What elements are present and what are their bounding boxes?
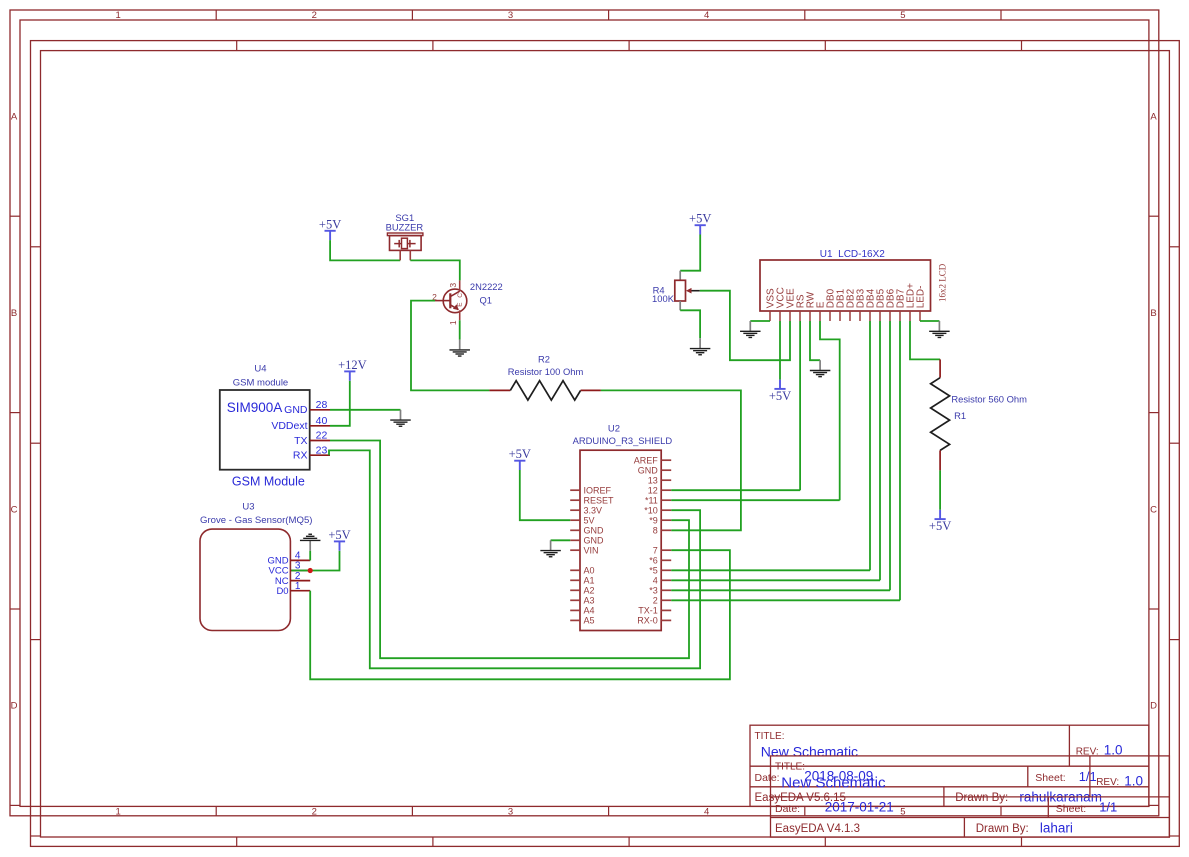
svg-text:1: 1: [115, 806, 120, 817]
wire U2 pin *11 to LCD E: [671, 499, 840, 501]
svg-text:*10: *10: [644, 506, 658, 516]
svg-text:GSM Module: GSM Module: [232, 474, 305, 488]
svg-text:GND: GND: [584, 526, 605, 536]
svg-text:ARDUINO_R3_SHIELD: ARDUINO_R3_SHIELD: [573, 435, 673, 446]
svg-text:2: 2: [312, 806, 317, 817]
wire U2 pin 12 to LCD RS: [671, 489, 800, 491]
svg-text:AREF: AREF: [634, 456, 659, 466]
svg-text:A: A: [1150, 112, 1157, 123]
svg-text:5V: 5V: [584, 516, 595, 526]
power flag +5V (R4 top): [689, 212, 711, 235]
ground (U2 GND): [540, 540, 561, 556]
svg-text:IOREF: IOREF: [584, 486, 612, 496]
label SG1 BUZZER: [386, 212, 424, 232]
svg-text:D: D: [1150, 701, 1157, 712]
svg-text:D: D: [11, 701, 18, 712]
U4 pin 40 VDDext: [271, 415, 330, 432]
wire +5V to U2 5V pin: [520, 470, 570, 520]
wire LCD DB7 vertical: [899, 321, 901, 600]
svg-text:A0: A0: [584, 566, 595, 576]
svg-text:5: 5: [900, 10, 905, 21]
svg-text:*3: *3: [649, 586, 658, 596]
svg-text:TX-1: TX-1: [638, 606, 658, 616]
svg-text:TITLE:: TITLE:: [755, 731, 785, 742]
wire LCD VCC to +5V: [779, 321, 781, 380]
U2 right pin RX-0: [637, 616, 671, 626]
ground (U3 GND, inverted): [300, 534, 321, 550]
wire LCD DB6 vertical: [889, 321, 891, 590]
resistor R2 100 Ohm: [489, 381, 601, 400]
svg-text:A1: A1: [584, 576, 595, 586]
svg-text:8: 8: [653, 526, 658, 536]
power flag +12V: [338, 358, 367, 381]
wire U2 pin 4 to LCD DB5: [671, 579, 880, 581]
svg-text:+5V: +5V: [319, 217, 341, 231]
svg-text:1/1: 1/1: [1079, 769, 1097, 784]
U2 left pin IOREF: [570, 486, 611, 496]
svg-text:GND: GND: [638, 466, 659, 476]
wire U3 D0 to U2 pin 7: [310, 550, 730, 679]
U1 pin RW: [805, 291, 816, 321]
label R4 100K: [652, 285, 675, 305]
wire LCD LED- to ground: [920, 320, 939, 322]
svg-text:R1: R1: [954, 410, 966, 421]
svg-text:+12V: +12V: [338, 358, 367, 372]
svg-text:Sheet:: Sheet:: [1056, 803, 1086, 815]
U2 left pin RESET: [570, 496, 614, 506]
svg-text:U1 LCD-16X2: U1 LCD-16X2: [820, 249, 885, 260]
svg-text:VIN: VIN: [584, 546, 599, 556]
wire Q1 base to R2: [411, 301, 489, 391]
svg-text:Resistor 560 Ohm: Resistor 560 Ohm: [951, 393, 1027, 404]
svg-text:40: 40: [316, 415, 328, 427]
U2 right pin AREF: [634, 456, 671, 466]
wire buzzer pin 2 to Q1 collector: [410, 260, 460, 280]
power flag +5V (R1 bottom): [929, 510, 951, 533]
svg-text:TX: TX: [294, 435, 307, 447]
wire LCD DB5 vertical: [879, 321, 881, 580]
svg-text:U3: U3: [242, 502, 254, 513]
U2 right pin *11: [645, 496, 671, 506]
wire LCD LED+ to R1: [910, 321, 940, 359]
resistor R1 560 Ohm: [931, 359, 950, 470]
svg-text:E: E: [456, 302, 463, 307]
svg-text:+5V: +5V: [509, 447, 531, 461]
svg-text:U2: U2: [608, 424, 620, 435]
U2 left pin GND: [570, 526, 604, 536]
svg-text:Drawn By:: Drawn By:: [955, 792, 1008, 804]
svg-text:*9: *9: [649, 516, 658, 526]
svg-text:C: C: [457, 293, 464, 298]
svg-text:A5: A5: [584, 616, 595, 626]
ground (Q1 emitter): [449, 340, 470, 356]
svg-text:GND: GND: [284, 404, 308, 416]
svg-text:EasyEDA V4.1.3: EasyEDA V4.1.3: [775, 823, 860, 835]
power flag +5V (buzzer supply): [319, 217, 341, 240]
U4 pin 28 GND: [284, 399, 330, 416]
svg-text:+5V: +5V: [689, 212, 711, 226]
title block sheet 1: [750, 725, 1149, 806]
junction dot U3 VCC: [308, 568, 313, 573]
U3 pin 3 VCC: [269, 561, 311, 577]
U1 pin DB7: [895, 288, 906, 321]
svg-text:B: B: [1150, 308, 1156, 319]
wire R1 to +5V: [939, 470, 941, 509]
wire LCD E to U2 *11 vertical: [820, 321, 840, 500]
U1 pin DB2: [845, 288, 856, 321]
transistor Q1 2N2222: [432, 280, 467, 325]
svg-text:A4: A4: [584, 606, 595, 616]
ground (U4 GND): [390, 410, 411, 426]
label 16x2 LCD (rotated): [938, 263, 948, 302]
U2 left pin A4: [570, 606, 594, 616]
svg-text:RESET: RESET: [584, 496, 615, 506]
U2 left pin A3: [570, 596, 594, 606]
wire LCD VSS to ground: [750, 320, 770, 322]
svg-text:+5V: +5V: [769, 389, 791, 403]
svg-text:New Schematic: New Schematic: [761, 744, 858, 760]
U2 right pin 4: [653, 576, 671, 586]
U1 pin DB5: [875, 288, 886, 321]
svg-text:Q1: Q1: [480, 294, 493, 305]
U2 left pin A2: [570, 586, 594, 596]
U1 pin VEE: [785, 288, 796, 321]
U1 pin VSS: [765, 288, 776, 321]
U1 pin DB0: [825, 288, 836, 321]
wire R2 to U2 pin 8: [601, 390, 741, 530]
label Q1 2N2222: [470, 281, 503, 306]
svg-text:3: 3: [508, 10, 513, 21]
svg-text:22: 22: [316, 430, 328, 442]
svg-text:4: 4: [704, 806, 709, 817]
wire U4 VDDext to +12V: [330, 381, 350, 426]
svg-text:1/1: 1/1: [1099, 800, 1117, 815]
svg-text:A3: A3: [584, 596, 595, 606]
svg-text:A2: A2: [584, 586, 595, 596]
wire +5V to R4 pin 1: [680, 235, 700, 271]
U3 pin 1 D0: [276, 581, 310, 597]
svg-text:LED-: LED-: [915, 286, 926, 309]
svg-text:13: 13: [648, 476, 658, 486]
svg-text:Date:: Date:: [755, 772, 780, 784]
svg-text:3: 3: [508, 806, 513, 817]
svg-text:4: 4: [704, 10, 709, 21]
svg-text:C: C: [1150, 504, 1157, 515]
svg-text:VDDext: VDDext: [271, 420, 307, 432]
U2 right pin *3: [649, 586, 671, 596]
U2 left pin A0: [570, 566, 594, 576]
U2 right pin 13: [648, 476, 671, 486]
svg-text:4: 4: [653, 576, 658, 586]
svg-text:GSM module: GSM module: [233, 377, 288, 388]
svg-text:12: 12: [648, 486, 658, 496]
U3 pin 2 NC: [275, 571, 310, 587]
svg-text:100K: 100K: [652, 293, 675, 304]
U2 right pin TX-1: [638, 606, 671, 616]
svg-text:+5V: +5V: [328, 528, 350, 542]
U2 left pin A5: [570, 616, 594, 626]
svg-text:+5V: +5V: [929, 519, 951, 533]
svg-text:Grove - Gas Sensor(MQ5): Grove - Gas Sensor(MQ5): [200, 515, 313, 526]
ground (LCD VSS): [740, 321, 761, 337]
svg-text:1: 1: [295, 581, 301, 592]
svg-text:lahari: lahari: [1040, 820, 1073, 835]
svg-text:16x2 LCD: 16x2 LCD: [938, 263, 948, 302]
label R1 Resistor 560 Ohm: [951, 393, 1027, 421]
U1 pin RS: [795, 294, 806, 321]
svg-text:B: B: [11, 308, 17, 319]
svg-text:New Schematic: New Schematic: [781, 774, 886, 791]
U1 pin DB4: [865, 288, 876, 321]
U1 pin E: [815, 301, 826, 321]
svg-text:3.3V: 3.3V: [584, 506, 603, 516]
svg-text:1: 1: [448, 320, 458, 325]
U2 left pin VIN: [570, 546, 598, 556]
ground (LCD RW): [810, 360, 831, 376]
svg-text:23: 23: [316, 444, 328, 456]
svg-text:Drawn By:: Drawn By:: [976, 823, 1029, 835]
ground (LCD LED-): [929, 321, 950, 337]
U1 pin DB1: [835, 288, 846, 321]
svg-text:GND: GND: [584, 536, 605, 546]
wire LCD RW to ground: [810, 321, 820, 360]
U2 left pin GND: [570, 536, 604, 546]
wire U2 pin 2 to LCD DB7: [671, 599, 900, 601]
svg-text:2N2222: 2N2222: [470, 281, 503, 292]
U1 pin VCC: [775, 287, 786, 321]
power flag +5V (gas sensor): [328, 528, 350, 551]
U1 pin DB6: [885, 288, 896, 321]
IC U2 ARDUINO_R3_SHIELD: [573, 424, 673, 631]
svg-text:2: 2: [312, 10, 317, 21]
wire U4 TX to U2 pin *9: [330, 441, 689, 659]
svg-text:U4: U4: [254, 363, 266, 374]
wire U3 pin 4 to ground: [309, 551, 311, 561]
U3 pin 4 GND: [267, 551, 310, 567]
wire U4 GND pin to ground: [330, 409, 401, 411]
U2 left pin A1: [570, 576, 594, 586]
svg-text:*11: *11: [645, 496, 658, 506]
svg-text:*5: *5: [649, 566, 658, 576]
svg-text:1: 1: [115, 10, 120, 21]
svg-text:RX: RX: [293, 450, 308, 462]
label GSM Module: [232, 474, 305, 488]
U4 pin 23 RX: [293, 444, 330, 461]
IC U3 Grove Gas Sensor MQ5: [200, 502, 313, 631]
IC U1 LCD-16X2: [760, 249, 931, 311]
svg-text:3: 3: [448, 283, 458, 288]
svg-text:2: 2: [653, 596, 658, 606]
svg-text:SIM900A: SIM900A: [227, 400, 283, 415]
wire U2 pin *5 to LCD DB4: [671, 569, 870, 571]
wire R4 wiper to LCD VEE: [700, 291, 790, 361]
U2 right pin *5: [649, 566, 671, 576]
U2 left pin 3.3V: [570, 506, 602, 516]
label R2 Resistor 100 Ohm: [508, 353, 584, 377]
svg-text:Date:: Date:: [775, 803, 800, 815]
svg-text:D0: D0: [276, 586, 288, 597]
wire LCD DB4 vertical: [869, 321, 871, 570]
U2 right pin 2: [653, 596, 671, 606]
svg-text:R2: R2: [538, 353, 550, 364]
wire U3 VCC to +5V: [291, 551, 339, 571]
power flag +5V (LCD VCC): [769, 380, 791, 403]
svg-text:5: 5: [900, 806, 905, 817]
ground (R4 bottom): [690, 338, 711, 354]
IC U4 GSM module SIM900A: [220, 363, 310, 469]
svg-text:1.0: 1.0: [1124, 773, 1143, 788]
U2 right pin *6: [649, 556, 671, 566]
svg-text:28: 28: [316, 399, 328, 411]
U2 right pin *9: [649, 516, 671, 526]
svg-text:Resistor 100 Ohm: Resistor 100 Ohm: [508, 366, 584, 377]
svg-text:BUZZER: BUZZER: [386, 222, 424, 233]
U2 right pin GND: [638, 466, 671, 476]
U4 pin 22 TX: [294, 430, 330, 447]
wire U2 GND pin to ground: [551, 539, 571, 541]
U1 pin DB3: [855, 288, 866, 321]
U2 right pin 8: [653, 526, 671, 536]
U2 right pin *10: [644, 506, 671, 516]
svg-text:C: C: [11, 504, 18, 515]
potentiometer R4 100K: [675, 271, 700, 311]
power flag +5V (U2 5V pin): [509, 447, 531, 470]
svg-text:2017-01-21: 2017-01-21: [825, 799, 894, 814]
svg-text:Sheet:: Sheet:: [1035, 772, 1065, 784]
title block sheet 2: [771, 756, 1170, 837]
wire +5V to buzzer pin 1: [330, 240, 400, 260]
U1 pin LED-: [915, 286, 926, 321]
svg-text:RX-0: RX-0: [637, 616, 658, 626]
svg-text:TITLE:: TITLE:: [775, 762, 805, 773]
wire U4 RX to U2 pin *10: [329, 450, 700, 668]
U1 pin LED+: [905, 283, 916, 321]
wire R4 pin 2 to ground: [680, 310, 700, 338]
buzzer SG1: [387, 233, 423, 260]
U2 right pin 12: [648, 486, 671, 496]
svg-text:*6: *6: [649, 556, 658, 566]
U2 right pin 7: [653, 546, 671, 556]
svg-text:REV:: REV:: [1096, 777, 1119, 788]
svg-text:A: A: [11, 112, 18, 123]
U2 left pin 5V: [570, 516, 594, 526]
wire LCD RS vertical: [799, 321, 801, 490]
wire U2 pin *3 to LCD DB6: [671, 589, 890, 591]
wire Q1 emitter to ground: [459, 320, 461, 339]
svg-text:7: 7: [653, 546, 658, 556]
